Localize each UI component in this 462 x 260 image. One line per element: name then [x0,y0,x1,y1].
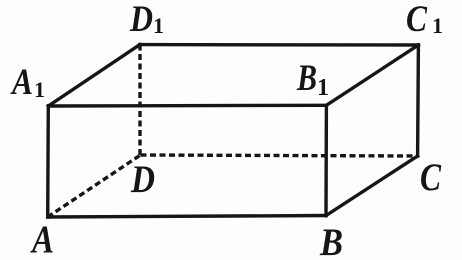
wire edge A1-B1 (top front, solid) [48,104,326,108]
svg-text:A: A [29,218,54,260]
wire edge D-D1 (hidden, dashed) [138,45,141,155]
wire edge B-C (bottom-right slant, solid) [326,156,418,216]
wire edge C-C1 (back right vertical, solid) [416,45,420,156]
wire edge A-B (bottom front, solid) [48,216,326,218]
wire edge D1-C1 (top back, solid) [140,43,419,47]
svg-text:B: B [319,221,343,260]
wire edge A-D (hidden, dashed) [48,155,141,217]
wire edge A1-D1 (top-left slant, solid) [48,45,140,106]
wire edge D-C (hidden, dashed) [141,155,418,156]
svg-text:D: D [130,158,155,201]
wire edge B-B1 (right front vertical, solid) [324,105,328,215]
wire edge A-A1 (left vertical, solid) [46,106,50,217]
svg-text:C: C [420,156,442,199]
wire edge B1-C1 (top-right slant, solid) [326,45,418,105]
